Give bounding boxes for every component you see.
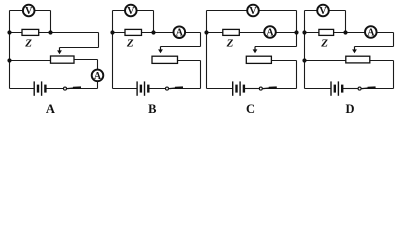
voltmeter V (circuit B) bbox=[125, 5, 137, 17]
wire ammeter branch lower A bbox=[97, 81, 99, 88]
svg-text:Z: Z bbox=[126, 38, 134, 50]
switch (circuit A) bbox=[64, 87, 82, 90]
rheostat body A bbox=[51, 56, 75, 63]
wire Z row B bbox=[113, 32, 201, 34]
wire rheostat left D bbox=[305, 60, 346, 62]
wire ammeter branch upper A bbox=[97, 60, 99, 70]
wire rheostat right B bbox=[178, 60, 201, 62]
node dot right Z junction C bbox=[294, 30, 298, 34]
wire right vertical lower C bbox=[296, 61, 298, 89]
rheostat body C bbox=[246, 56, 271, 63]
node dot left Z junction A bbox=[7, 30, 11, 34]
wire top B bbox=[113, 10, 154, 12]
wire feed right vertical D bbox=[393, 33, 395, 47]
voltmeter V (circuit D) bbox=[317, 5, 329, 17]
resistor Z (circuit B) bbox=[125, 29, 142, 35]
ammeter A (circuit C) bbox=[264, 26, 276, 38]
wire top D bbox=[305, 10, 346, 12]
wire Z row C bbox=[207, 32, 297, 34]
wire top C bbox=[207, 10, 297, 12]
node dot rheostat-left junction D bbox=[302, 58, 306, 62]
rheostat body B bbox=[152, 56, 178, 63]
wire feed right vertical B bbox=[200, 33, 202, 47]
wire Z row A bbox=[10, 32, 99, 34]
wire feed horizontal B bbox=[161, 46, 201, 48]
voltmeter V (circuit A) bbox=[23, 5, 35, 17]
wire bottom left D bbox=[305, 88, 332, 90]
node dot right Z junction B bbox=[151, 30, 155, 34]
wire right vertical lower B bbox=[200, 61, 202, 89]
rheostat wiper arrow A bbox=[57, 48, 62, 55]
switch (circuit D) bbox=[358, 87, 376, 90]
wire rheostat right C bbox=[271, 60, 296, 62]
ammeter A (circuit B) bbox=[174, 26, 186, 38]
svg-text:C: C bbox=[246, 102, 255, 116]
wire top A bbox=[10, 10, 51, 12]
wire feed horizontal A bbox=[60, 47, 99, 49]
resistor Z (circuit A) bbox=[22, 29, 39, 35]
node dot left Z junction D bbox=[302, 30, 306, 34]
wire V-loop right vertical A bbox=[50, 11, 52, 33]
resistor Z (circuit C) bbox=[223, 29, 240, 35]
svg-text:D: D bbox=[345, 102, 354, 116]
svg-text:B: B bbox=[148, 102, 156, 116]
wire left vertical B bbox=[112, 11, 114, 89]
wire V-loop right vertical D bbox=[345, 11, 347, 33]
wire right vertical lower D bbox=[393, 61, 395, 89]
switch (circuit C) bbox=[259, 87, 277, 90]
wire rheostat right D bbox=[370, 60, 394, 62]
wire bottom left A bbox=[10, 88, 35, 90]
wire left vertical A bbox=[9, 11, 11, 89]
svg-text:Z: Z bbox=[24, 38, 32, 50]
wire bottom right B bbox=[169, 88, 201, 90]
wire bottom right A bbox=[67, 88, 98, 90]
wire left vertical C bbox=[206, 11, 208, 89]
wire bottom mid B bbox=[149, 88, 166, 90]
wire V-loop right vertical B bbox=[153, 11, 155, 33]
ammeter A (circuit A) bbox=[92, 70, 104, 82]
wire bottom right C bbox=[263, 88, 297, 90]
switch (circuit B) bbox=[166, 87, 184, 90]
wire bottom right D bbox=[361, 88, 393, 90]
wire left vertical D bbox=[304, 11, 306, 89]
svg-text:A: A bbox=[46, 102, 55, 116]
wire bottom mid D bbox=[343, 88, 358, 90]
node dot rheostat-left junction A bbox=[7, 58, 11, 62]
battery (circuit B) bbox=[137, 81, 148, 95]
wire bottom left B bbox=[113, 88, 138, 90]
rheostat wiper arrow B bbox=[158, 47, 163, 54]
voltmeter V (circuit C) bbox=[247, 5, 259, 17]
resistor Z (circuit D) bbox=[319, 29, 334, 35]
wire right vertical upper C bbox=[296, 11, 298, 47]
battery (circuit D) bbox=[331, 81, 342, 95]
wire rheostat left A bbox=[10, 60, 51, 62]
rheostat body D bbox=[346, 56, 370, 63]
node dot left Z junction B bbox=[110, 30, 114, 34]
wire bottom mid C bbox=[244, 88, 259, 90]
wire feed horizontal D bbox=[355, 46, 394, 48]
battery (circuit C) bbox=[233, 81, 244, 95]
wire bottom mid A bbox=[46, 88, 64, 90]
wire feed horizontal C bbox=[255, 46, 297, 48]
svg-text:Z: Z bbox=[320, 38, 328, 50]
node dot right Z junction A bbox=[48, 30, 52, 34]
rheostat wiper arrow D bbox=[352, 47, 357, 54]
ammeter A (circuit D) bbox=[365, 26, 377, 38]
node dot right Z junction D bbox=[343, 30, 347, 34]
wire rheostat right A bbox=[74, 59, 98, 61]
battery (circuit A) bbox=[34, 81, 45, 95]
wire Z row D bbox=[305, 32, 394, 34]
node dot left Z junction C bbox=[204, 30, 208, 34]
wire feed right vertical A bbox=[98, 33, 100, 48]
rheostat wiper arrow C bbox=[253, 47, 258, 54]
svg-text:Z: Z bbox=[226, 38, 234, 50]
wire bottom left C bbox=[207, 88, 233, 90]
